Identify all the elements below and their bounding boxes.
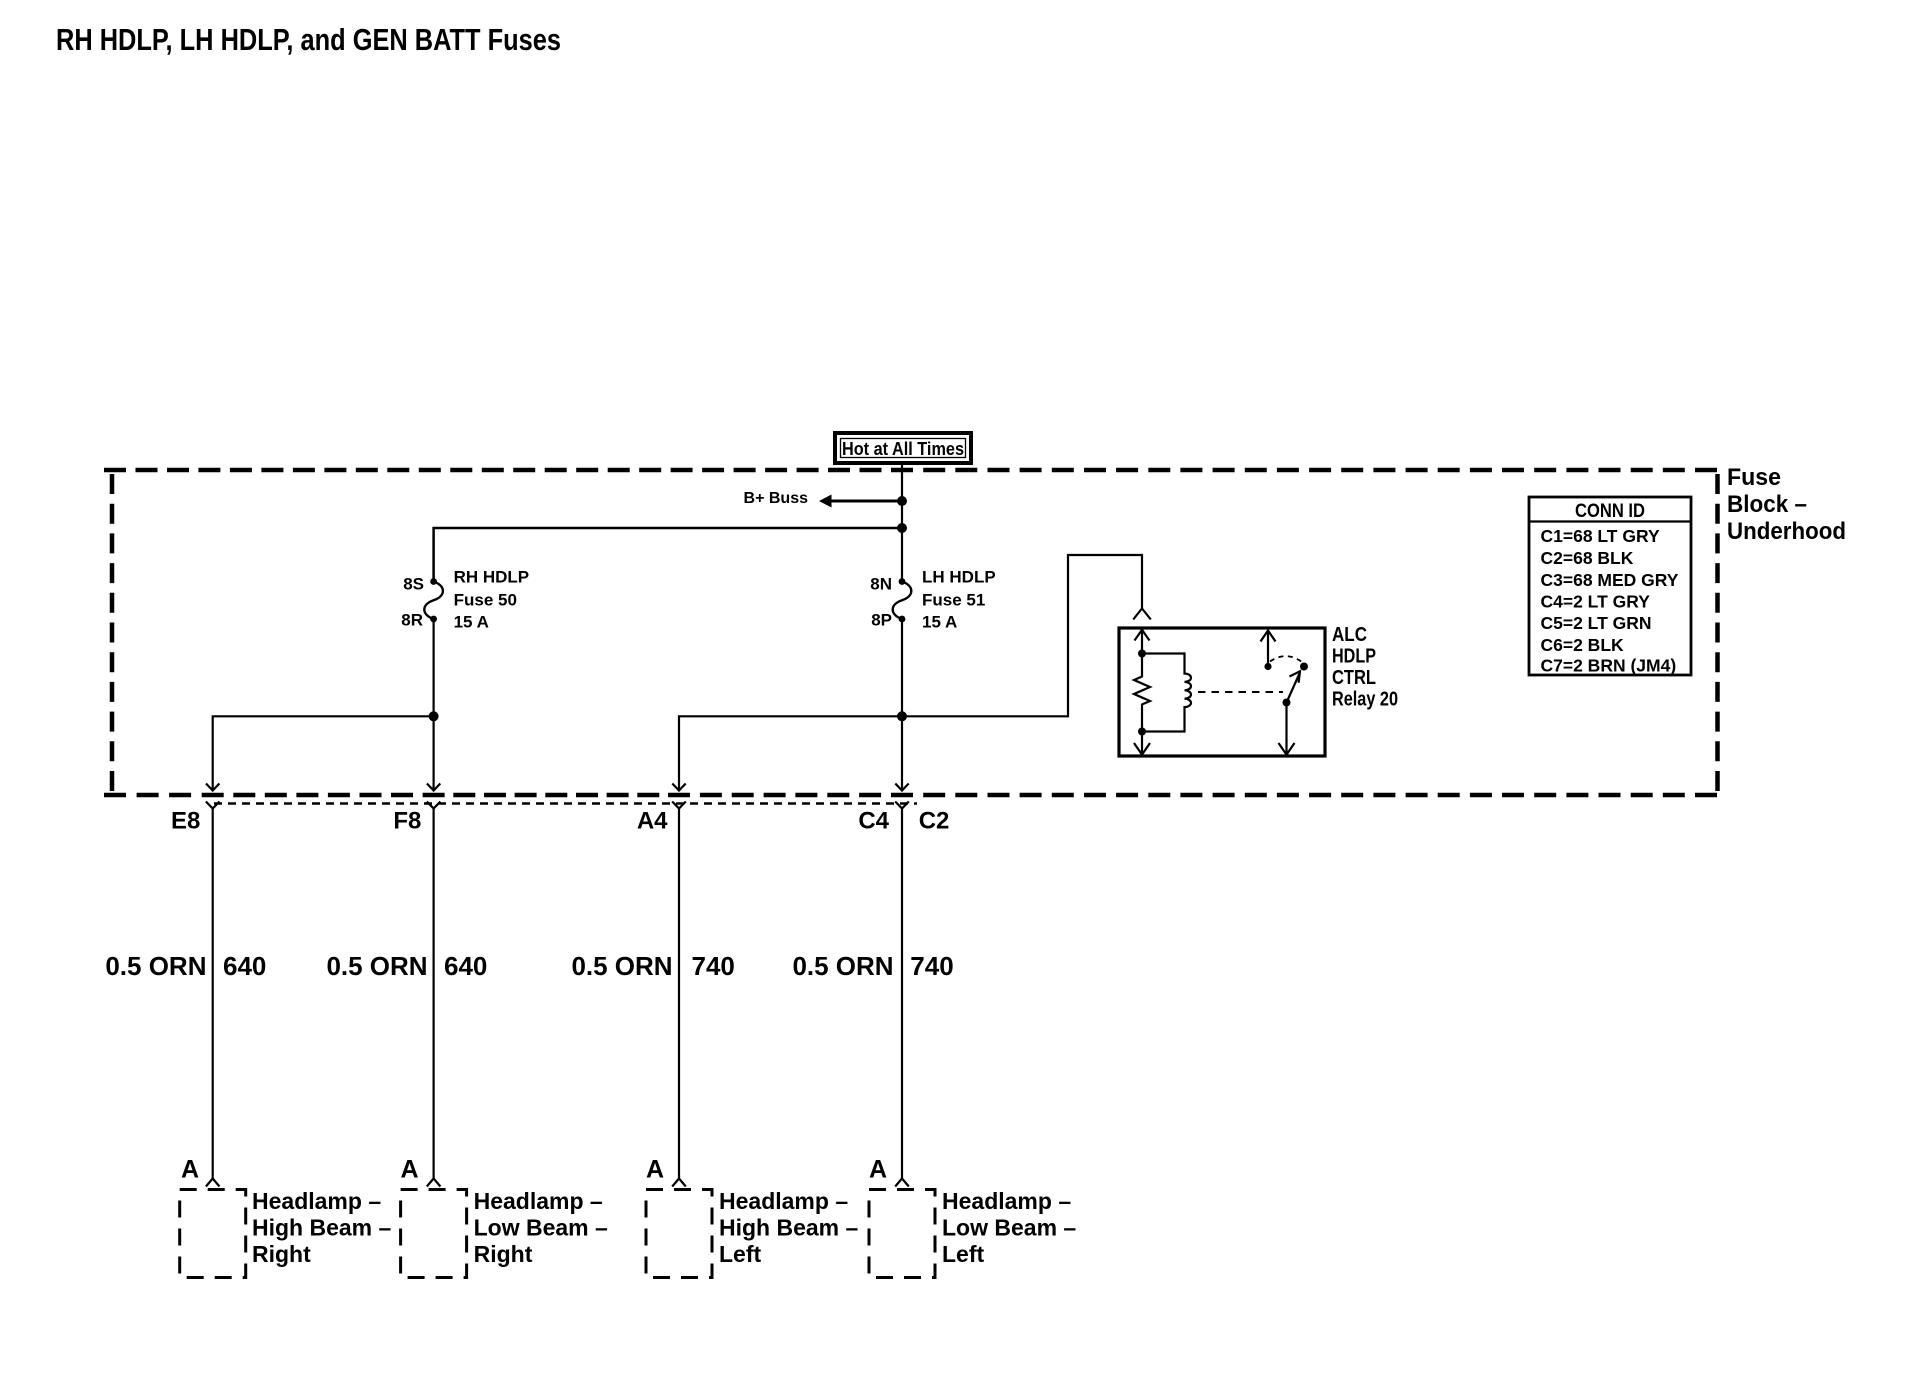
connector chevron cavity F8 [427, 802, 441, 809]
svg-text:Headlamp –: Headlamp – [942, 1188, 1071, 1214]
svg-text:0.5 ORN: 0.5 ORN [105, 951, 206, 981]
connector chevron cavity C4 [895, 802, 909, 809]
svg-text:740: 740 [910, 951, 953, 981]
dashed actuation link [1198, 691, 1283, 693]
svg-text:F8: F8 [393, 808, 421, 835]
wire: fuse 50 output down to border [433, 619, 435, 789]
wire: B+ Buss tap [828, 500, 902, 503]
wire: feed to RH HDLP fuse [434, 528, 902, 581]
relay box [1119, 628, 1325, 756]
svg-text:C6=2 BLK: C6=2 BLK [1541, 635, 1625, 655]
connector C2 thin dashed line [214, 802, 917, 804]
wire: A4 to headlamp high beam left [678, 809, 680, 1179]
svg-text:740: 740 [692, 951, 735, 981]
svg-text:Left: Left [942, 1241, 985, 1267]
svg-text:A4: A4 [637, 808, 668, 835]
svg-text:C4: C4 [858, 808, 889, 835]
wire label 0.5 ORN circuit 640 (E8 wire) [105, 951, 266, 981]
arrowhead into fuse block border at A4 [672, 784, 685, 791]
wire: fuse 51 output down to border [901, 619, 903, 789]
headlamp high beam right box [180, 1190, 246, 1278]
svg-text:RH HDLP: RH HDLP [454, 568, 530, 587]
node Hot at All Times box [835, 433, 971, 463]
svg-text:Headlamp –: Headlamp – [252, 1188, 381, 1214]
wire: C4 to headlamp low beam left [901, 809, 903, 1179]
headlamp low beam right box [401, 1190, 467, 1278]
svg-text:A: A [869, 1156, 887, 1184]
svg-text:ALC: ALC [1332, 624, 1367, 646]
relay coil pin arrow down [1134, 732, 1150, 755]
svg-text:C2=68 BLK: C2=68 BLK [1541, 548, 1634, 568]
wire: branch to E8 [213, 716, 434, 789]
wire: branch A4 and to relay [679, 555, 1142, 789]
svg-text:Low Beam –: Low Beam – [942, 1215, 1076, 1241]
arrowhead B+ Buss [819, 495, 832, 508]
wire label 0.5 ORN circuit 640 (F8 wire) [326, 951, 487, 981]
svg-text:Relay 20: Relay 20 [1332, 689, 1398, 711]
junction dot [429, 711, 439, 721]
resistor (relay) [1134, 654, 1150, 732]
svg-text:C5=2 LT GRN: C5=2 LT GRN [1541, 613, 1652, 633]
relay common pin arrow up [1261, 631, 1276, 667]
svg-text:Block –: Block – [1727, 491, 1807, 518]
arrowhead into fuse block border at F8 [427, 784, 440, 791]
svg-text:640: 640 [444, 951, 487, 981]
headlamp low beam left label [942, 1188, 1076, 1267]
svg-text:E8: E8 [171, 808, 200, 835]
connector chevron pin A headlamp high beam left [672, 1179, 686, 1187]
svg-text:Headlamp –: Headlamp – [719, 1188, 848, 1214]
svg-text:C4=2 LT GRY: C4=2 LT GRY [1541, 592, 1651, 612]
CONN ID table [1529, 497, 1691, 676]
svg-text:8R: 8R [401, 611, 423, 630]
svg-text:8P: 8P [871, 611, 892, 630]
connector chevron cavity E8 [206, 802, 220, 809]
fuse F51 LH HDLP 15A [870, 568, 995, 632]
svg-text:A: A [401, 1156, 419, 1184]
svg-text:Fuse 50: Fuse 50 [454, 591, 517, 610]
wire: main drop from Hot at All Times to fuse 51 [901, 463, 903, 581]
headlamp low beam left box [869, 1190, 935, 1278]
fuse F50 RH HDLP 15A [401, 568, 529, 632]
headlamp high beam left label [719, 1188, 859, 1267]
svg-text:0.5 ORN: 0.5 ORN [792, 951, 893, 981]
svg-text:15 A: 15 A [454, 613, 489, 632]
svg-text:Fuse: Fuse [1727, 464, 1781, 491]
svg-text:C2: C2 [919, 808, 950, 835]
coil (relay) [1142, 654, 1191, 732]
arrowhead into fuse block border at C4 [895, 784, 908, 791]
svg-text:CONN ID: CONN ID [1575, 501, 1645, 522]
svg-text:C3=68 MED GRY: C3=68 MED GRY [1541, 570, 1679, 590]
relay switched pin arrow down [1279, 703, 1295, 755]
wire label 0.5 ORN circuit 740 (A4 wire) [571, 951, 734, 981]
connector chevron pin A headlamp high beam right [206, 1179, 220, 1187]
svg-text:CTRL: CTRL [1332, 667, 1376, 689]
svg-text:A: A [181, 1156, 199, 1184]
junction dot [897, 711, 907, 721]
relay coil pin arrow up [1135, 630, 1150, 653]
svg-text:A: A [646, 1156, 664, 1184]
fuse block underhood dashed border [104, 470, 1718, 795]
svg-text:Low Beam –: Low Beam – [474, 1215, 608, 1241]
svg-text:8S: 8S [403, 575, 424, 594]
svg-text:High Beam –: High Beam – [252, 1215, 392, 1241]
headlamp high beam left box [646, 1190, 712, 1278]
svg-text:Right: Right [252, 1241, 311, 1267]
svg-text:15 A: 15 A [922, 613, 957, 632]
svg-text:High Beam –: High Beam – [719, 1215, 859, 1241]
svg-text:8N: 8N [870, 575, 892, 594]
connector chevron cavity A4 [672, 802, 686, 809]
svg-text:RH HDLP, LH HDLP, and GEN BATT: RH HDLP, LH HDLP, and GEN BATT Fuses [56, 22, 561, 57]
svg-text:Right: Right [474, 1241, 533, 1267]
svg-text:640: 640 [223, 951, 266, 981]
relay K20 ALC HDLP CTRL [1119, 609, 1398, 757]
junction dot [897, 496, 907, 506]
svg-text:Underhood: Underhood [1727, 518, 1846, 545]
svg-text:0.5 ORN: 0.5 ORN [326, 951, 427, 981]
svg-text:Headlamp –: Headlamp – [474, 1188, 603, 1214]
svg-text:C1=68 LT GRY: C1=68 LT GRY [1541, 526, 1660, 546]
connector chevron pin A headlamp low beam right [427, 1179, 441, 1187]
switch arm with arrowhead [1287, 671, 1301, 702]
svg-text:C7=2 BRN (JM4): C7=2 BRN (JM4) [1541, 656, 1677, 676]
svg-text:0.5 ORN: 0.5 ORN [571, 951, 672, 981]
wire: F8 to headlamp low beam right [433, 809, 435, 1179]
headlamp high beam right label [252, 1188, 392, 1267]
svg-text:Left: Left [719, 1241, 762, 1267]
dashed travel arc [1270, 656, 1302, 662]
svg-text:B+ Buss: B+ Buss [744, 490, 809, 507]
connector chevron pin A headlamp low beam left [895, 1179, 909, 1187]
node Fuse Block - Underhood label [1727, 464, 1846, 545]
svg-text:Fuse 51: Fuse 51 [922, 591, 985, 610]
switch moving contact dot [1300, 663, 1308, 671]
svg-text:Hot at All Times: Hot at All Times [842, 439, 964, 459]
headlamp low beam right label [474, 1188, 608, 1267]
wire label 0.5 ORN circuit 740 (C4 wire) [792, 951, 953, 981]
wire: E8 to headlamp high beam right [212, 809, 214, 1179]
junction dot [897, 523, 907, 533]
connector chevron into relay [1133, 609, 1151, 620]
svg-text:LH HDLP: LH HDLP [922, 568, 996, 587]
arrowhead into fuse block border at E8 [206, 784, 219, 791]
svg-text:HDLP: HDLP [1332, 646, 1376, 668]
